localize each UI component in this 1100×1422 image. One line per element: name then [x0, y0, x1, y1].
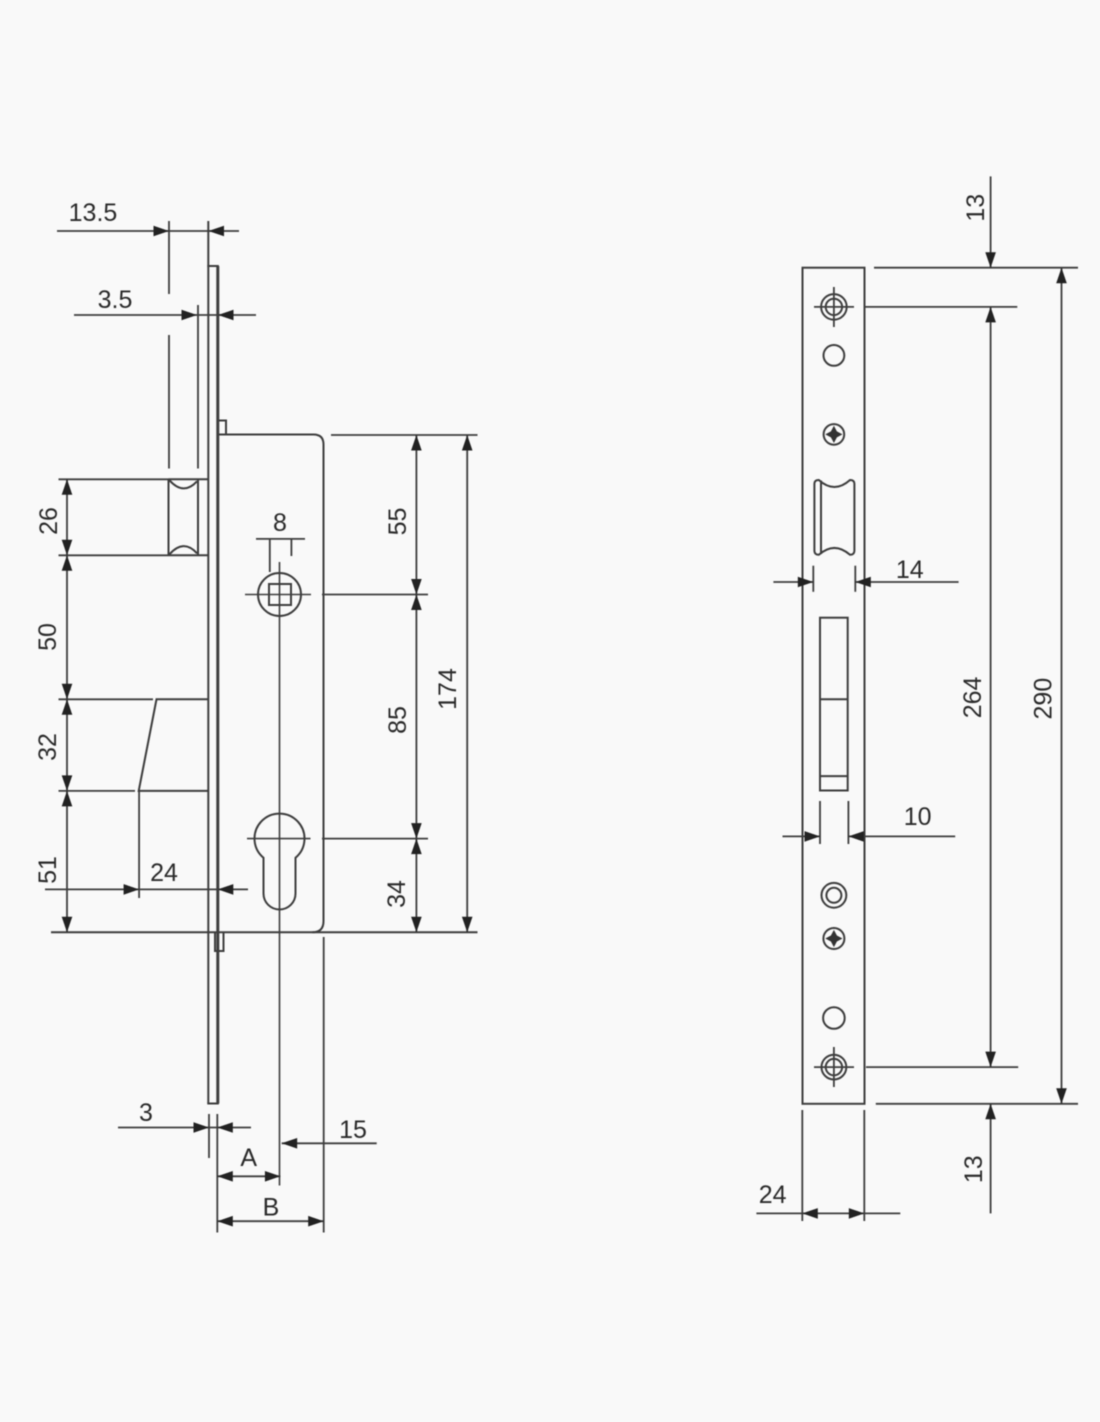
svg-text:264: 264 [959, 676, 987, 718]
svg-text:14: 14 [896, 556, 924, 584]
faceplate front view outline [803, 268, 865, 1104]
svg-text:10: 10 [904, 803, 932, 831]
dim B line [217, 1220, 323, 1222]
ext line roller outer face [168, 221, 170, 294]
dim 13 bottom line [990, 1104, 992, 1214]
bottom lug [215, 933, 224, 951]
svg-text:26: 26 [35, 507, 63, 535]
ext deadbolt outer [138, 791, 140, 898]
svg-text:290: 290 [1029, 678, 1057, 720]
dim 174 line [466, 435, 468, 932]
ext plate bottom [876, 1103, 1078, 1105]
roller cutout front view [814, 480, 854, 555]
spindle square [269, 584, 291, 605]
spindle horizontal crosshair [245, 594, 311, 596]
svg-text:13.5: 13.5 [69, 199, 118, 227]
svg-text:13: 13 [962, 194, 990, 222]
plain hole 2 [823, 1007, 845, 1029]
dim 290 line [1061, 268, 1063, 1104]
roller side view [169, 479, 209, 555]
ext top screw center [865, 306, 1018, 308]
dim 15 line [282, 1142, 377, 1144]
latch cutout [820, 618, 848, 791]
svg-text:15: 15 [339, 1116, 367, 1144]
chain 55/85/34 dim line [415, 435, 417, 932]
dim 264 line [990, 307, 992, 1067]
lock body top lug [218, 421, 226, 435]
top screw [821, 294, 847, 320]
small screw [824, 424, 845, 445]
dim 24 line [756, 1212, 900, 1214]
faceplate top cap [207, 265, 219, 267]
RIGHT VIEW DIMENSIONS [756, 176, 1078, 1221]
svg-text:8: 8 [273, 509, 287, 537]
dim 10 ticks and line [819, 801, 821, 844]
dim 24 line [45, 888, 248, 890]
svg-text:3: 3 [139, 1099, 153, 1127]
deadbolt side view [139, 699, 209, 791]
svg-text:51: 51 [34, 856, 62, 884]
arrows left view [62, 226, 473, 1227]
faceplate bottom cap [207, 1103, 219, 1105]
ext bottom screw center [866, 1066, 1018, 1068]
ext line roller inner [197, 305, 199, 469]
bottom ext body right [323, 937, 325, 1233]
dim 13.5 line [57, 230, 239, 232]
ext spindle center [322, 594, 428, 596]
cylinder screw ring hole [822, 883, 847, 908]
ext top of body [331, 434, 478, 436]
svg-text:174: 174 [434, 668, 462, 710]
arrows right view [798, 252, 1067, 1219]
euro cylinder profile [255, 814, 305, 910]
svg-text:13: 13 [960, 1155, 988, 1183]
lock body outline top edge and right edge [218, 435, 324, 933]
spindle hole circle [258, 573, 301, 616]
svg-text:B: B [263, 1194, 280, 1222]
svg-text:34: 34 [383, 880, 411, 908]
svg-text:50: 50 [34, 623, 62, 651]
svg-text:3.5: 3.5 [98, 286, 133, 314]
left chain dim line [66, 479, 68, 932]
svg-text:32: 32 [34, 733, 62, 761]
ext lines left chain [59, 478, 169, 480]
labels right view [759, 194, 1058, 1209]
cylinder horizontal crosshair [247, 838, 311, 840]
svg-text:A: A [240, 1144, 257, 1172]
svg-text:24: 24 [759, 1181, 787, 1209]
dim A line [217, 1175, 280, 1177]
dim 24 ext lines [801, 1110, 803, 1221]
dim 3 line [118, 1127, 251, 1129]
plain hole [824, 345, 845, 366]
dim 14 ticks and line [812, 566, 814, 592]
dim 13 top line [990, 176, 992, 267]
vertical centerline [279, 562, 281, 1186]
dim 8 [256, 538, 305, 540]
body bottom edge with extensions [51, 931, 478, 933]
bottom ext plate front [208, 1114, 210, 1158]
dim 3.5 line [74, 314, 256, 316]
svg-text:24: 24 [150, 859, 178, 887]
svg-text:55: 55 [384, 508, 412, 536]
bottom screw [822, 1055, 847, 1080]
svg-text:85: 85 [384, 706, 412, 734]
ext plate top [874, 267, 1078, 269]
bottom ext plate back [216, 1114, 218, 1233]
ext cylinder center [322, 838, 428, 840]
faceplate side view back face [216, 266, 219, 1104]
small screw 2 [823, 928, 844, 949]
faceplate side view front face [207, 221, 209, 1104]
RIGHT VIEW [803, 268, 865, 1104]
LEFT VIEW DIMENSIONS [45, 221, 478, 1233]
labels left view [34, 199, 462, 1222]
